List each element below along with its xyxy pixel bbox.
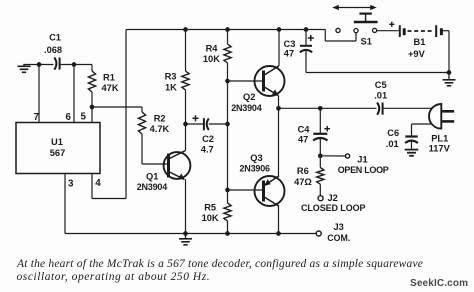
node R5 bottom — [225, 231, 230, 236]
svg-text:.01: .01 — [386, 139, 399, 149]
resistor R4 — [227, 30, 229, 45]
svg-text:5: 5 — [81, 112, 87, 123]
IC U1 567 — [16, 123, 100, 174]
svg-text:R3: R3 — [165, 72, 177, 82]
svg-text:R4: R4 — [206, 44, 219, 54]
wire PL1 lower — [412, 123, 432, 125]
svg-text:B1: B1 — [414, 37, 426, 47]
wire pin 5 — [91, 107, 93, 123]
svg-text:+9V: +9V — [408, 49, 426, 59]
wire Q3 emitter — [278, 108, 280, 176]
node R3 top — [183, 27, 188, 32]
resistor R2 — [138, 112, 145, 134]
switch S1 — [336, 28, 340, 32]
svg-text:C5: C5 — [375, 80, 387, 90]
svg-text:U1: U1 — [51, 137, 63, 147]
svg-text:.01: .01 — [374, 91, 387, 101]
svg-text:J1: J1 — [357, 154, 367, 164]
svg-text:C1: C1 — [49, 33, 61, 43]
svg-text:47: 47 — [284, 49, 294, 59]
svg-text:4.7K: 4.7K — [150, 124, 170, 134]
wire Q3 collector — [278, 206, 280, 233]
svg-text:R2: R2 — [154, 114, 166, 124]
node Q2 collector top — [277, 27, 282, 32]
svg-text:1K: 1K — [165, 83, 177, 93]
svg-text:567: 567 — [50, 148, 66, 158]
resistor R6 — [319, 156, 321, 168]
node C2 left junction — [183, 122, 188, 127]
wire emitter rail — [279, 107, 377, 109]
capacitor C2 — [186, 123, 204, 125]
wire C1 top net — [23, 64, 53, 66]
svg-text:COM.: COM. — [327, 233, 350, 243]
ground (pin 7 / C1 net) — [23, 64, 25, 66]
node Q2 base junction — [225, 79, 230, 84]
svg-text:7: 7 — [34, 112, 40, 123]
ground (bottom rail) — [185, 234, 187, 239]
svg-text:C2: C2 — [202, 134, 214, 144]
capacitor C6 — [405, 135, 417, 137]
svg-text:2N3906: 2N3906 — [240, 164, 271, 174]
svg-text:C4: C4 — [298, 125, 311, 135]
wire Q2 base — [228, 80, 263, 82]
svg-text:R5: R5 — [204, 203, 216, 213]
capacitor C5 — [377, 103, 379, 115]
node C4/R6/J1 junction — [318, 153, 323, 158]
svg-text:47K: 47K — [102, 83, 119, 93]
wire C3 ground rail — [306, 72, 449, 74]
svg-text:6: 6 — [66, 112, 72, 123]
resistor R1 — [91, 65, 93, 72]
wire pin 3 — [64, 174, 66, 234]
svg-text:C6: C6 — [387, 128, 399, 138]
node C1-right junction — [72, 62, 77, 67]
wire Q1 collector — [185, 124, 187, 151]
svg-text:Q2: Q2 — [243, 92, 255, 102]
svg-text:Q3: Q3 — [250, 153, 262, 163]
svg-text:C3: C3 — [284, 39, 296, 49]
svg-text:Q1: Q1 — [146, 172, 158, 182]
wire to R2 — [92, 106, 142, 108]
node B1 ground junction — [447, 70, 452, 75]
resistor R3 — [185, 30, 187, 72]
node Q3 collector bottom — [276, 231, 281, 236]
svg-text:PL1: PL1 — [431, 134, 448, 144]
svg-text:4.7: 4.7 — [201, 145, 214, 155]
svg-text:R1: R1 — [103, 73, 115, 83]
terminal J1 — [346, 154, 350, 158]
wire central net — [227, 124, 229, 203]
svg-text:R6: R6 — [297, 166, 309, 176]
svg-text:CLOSED LOOP: CLOSED LOOP — [301, 203, 366, 213]
wire bottom rail — [65, 233, 316, 235]
wire R2 to Q1 base — [142, 163, 168, 165]
transistor Q1 2N3904 — [164, 152, 191, 179]
svg-text:OPEN LOOP: OPEN LOOP — [338, 165, 389, 175]
svg-text:.068: .068 — [44, 45, 62, 55]
ground (battery) — [448, 73, 450, 80]
capacitor C4 — [319, 108, 321, 133]
transistor Q2 2N3904 — [255, 66, 285, 96]
wire Q2 collector — [278, 30, 280, 66]
wire pin 7 — [38, 65, 40, 123]
svg-text:10K: 10K — [202, 213, 219, 223]
svg-text:117V: 117V — [429, 144, 451, 154]
caption text — [17, 258, 423, 270]
wire pin 4 — [91, 174, 93, 199]
terminal J3 — [316, 231, 321, 236]
wire to J1 — [320, 155, 345, 157]
svg-text:3: 3 — [68, 179, 74, 190]
arrow S1 travel — [336, 7, 373, 9]
node emitter junction — [276, 106, 281, 111]
node C1-left junction — [37, 62, 42, 67]
wire S1 to B1 — [377, 30, 399, 32]
node Q3 base junction — [225, 188, 230, 193]
terminal J2 — [318, 196, 323, 201]
node bottom ground junction — [183, 231, 188, 236]
svg-text:10K: 10K — [203, 54, 220, 64]
svg-text:J2: J2 — [328, 193, 338, 203]
node R1/pin5 junction — [90, 105, 95, 110]
ground (C6) — [405, 149, 419, 151]
node C4 top — [318, 106, 323, 111]
svg-text:2N3904: 2N3904 — [137, 182, 168, 192]
capacitor C1 — [54, 57, 56, 69]
wire B1 to ground — [448, 31, 450, 73]
svg-text:S1: S1 — [361, 36, 372, 46]
svg-text:4: 4 — [95, 178, 101, 189]
capacitor C3 — [305, 30, 307, 46]
transistor Q3 2N3906 — [255, 176, 285, 206]
wire top rail — [126, 29, 325, 31]
svg-text:47: 47 — [298, 135, 308, 145]
wire Q3 base — [228, 189, 263, 191]
wire pin 6 — [73, 65, 75, 123]
node C2 right junction — [225, 122, 230, 127]
svg-text:47Ω: 47Ω — [294, 177, 312, 187]
wire Q2 emitter — [278, 95, 280, 108]
wire to S1 — [324, 30, 326, 42]
watermark SeekIC.com — [410, 278, 468, 289]
node C3 top — [304, 27, 309, 32]
node R4 top — [225, 27, 230, 32]
plug PL1 117V — [429, 104, 441, 129]
svg-text:J3: J3 — [334, 222, 344, 232]
battery B1 — [389, 23, 394, 25]
wire Q1 emitter — [185, 179, 187, 233]
resistor R5 — [224, 203, 231, 221]
svg-text:2N3904: 2N3904 — [231, 103, 262, 113]
